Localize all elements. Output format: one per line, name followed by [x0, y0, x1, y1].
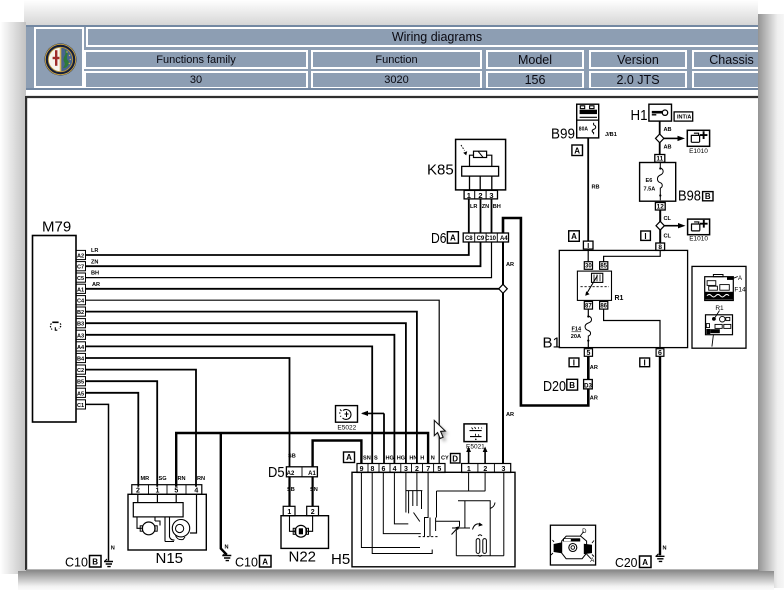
svg-text:C7: C7: [77, 265, 84, 271]
component N15 pin strip 2 1 5 4: [132, 485, 202, 495]
arrowhead to E1010 top: [678, 136, 686, 141]
wire K85 pin3 down to D6: [491, 199, 493, 233]
K85 contact bar: [462, 166, 499, 176]
svg-text:SN: SN: [310, 487, 318, 493]
wire M79-A2 LR to K85 pin1 via D6-C8: [86, 242, 469, 255]
svg-text:E5022: E5022: [337, 424, 356, 431]
I tag box below B1 left: [569, 358, 579, 367]
diagram panel bottom edge: [26, 569, 759, 571]
wire inside B1 from 8 to relay 85: [604, 250, 661, 261]
wire E5021 arrow from H5 pin2: [484, 451, 486, 464]
relay R1 pin box 30: [584, 262, 592, 270]
component B98 fuse box: [640, 163, 676, 202]
wire H1 AB to junction and pin 11: [659, 121, 661, 154]
svg-text:N: N: [225, 545, 229, 551]
svg-text:C8: C8: [465, 236, 473, 242]
ground module E1010 top box: [687, 130, 709, 146]
relay R1 coil box: [592, 273, 603, 282]
svg-text:A: A: [574, 146, 580, 155]
M79 wiper icon: [50, 322, 61, 330]
wire inside B1 from I to relay 30: [587, 249, 589, 262]
svg-text:AR: AR: [590, 365, 598, 371]
svg-text:N22: N22: [289, 549, 317, 566]
relay R1 switch arm: [587, 276, 598, 294]
svg-text:2: 2: [415, 466, 419, 473]
svg-text:N: N: [431, 456, 435, 462]
svg-text:D3: D3: [584, 383, 592, 389]
svg-text:LR: LR: [470, 204, 477, 210]
mouse cursor: [434, 420, 448, 441]
connector pin box 6: [656, 349, 664, 357]
diagram panel top border: [26, 96, 758, 98]
component H1 ignition switch box: [649, 104, 672, 121]
svg-text:E1010: E1010: [689, 236, 708, 243]
N15 wiper motor M: [142, 522, 155, 535]
connector D6 A tag box: [447, 232, 458, 244]
svg-text:AR: AR: [506, 412, 514, 418]
svg-text:RN: RN: [178, 476, 186, 482]
component N22 pin boxes 1 2: [283, 506, 295, 515]
svg-text:A: A: [642, 558, 648, 567]
svg-text:E1010: E1010: [689, 148, 708, 155]
svg-text:30: 30: [585, 264, 592, 270]
N15 washer pump: [172, 520, 189, 537]
wire K85 pin2 down to D6: [480, 199, 482, 233]
D20 B tag box: [567, 379, 578, 390]
svg-text:SB: SB: [287, 487, 295, 493]
svg-text:11: 11: [656, 156, 663, 163]
svg-text:12: 12: [657, 204, 665, 211]
svg-text:AB: AB: [664, 145, 672, 151]
svg-text:1: 1: [467, 466, 471, 473]
wire B1 pin6 N to ground C20: [659, 356, 661, 555]
svg-text:F14: F14: [734, 287, 746, 294]
connector I box on B1 top left: [583, 241, 593, 249]
svg-text:3: 3: [502, 466, 506, 473]
B98 fuse symbol: [657, 163, 663, 201]
svg-text:CL: CL: [664, 233, 672, 239]
svg-text:D: D: [582, 529, 587, 535]
wire M79-A1 AR to node diamond: [86, 288, 500, 290]
svg-text:AR: AR: [506, 262, 514, 268]
M79 pin boxes column: [76, 250, 86, 409]
wire M79-B5 to N15 pin1: [86, 381, 158, 487]
svg-text:1: 1: [467, 191, 471, 200]
svg-text:A: A: [262, 558, 268, 567]
svg-text:H1: H1: [631, 107, 648, 124]
svg-text:85: 85: [600, 264, 607, 270]
ground C20 A symbol: [656, 554, 665, 562]
H5 right pin strip 1 2 3: [462, 464, 511, 473]
svg-text:1: 1: [156, 488, 160, 495]
svg-text:2: 2: [483, 466, 487, 473]
svg-text:A: A: [346, 453, 352, 462]
relay R1 pin box 87: [584, 302, 592, 310]
ground C10 A symbol: [222, 553, 231, 561]
svg-text:A4: A4: [500, 236, 508, 242]
svg-text:C5: C5: [77, 276, 84, 282]
svg-text:N: N: [111, 546, 115, 552]
K85 relay coil: [474, 151, 487, 157]
svg-text:A: A: [450, 234, 456, 243]
svg-text:D5: D5: [268, 464, 285, 481]
B98 I tag box: [641, 231, 651, 240]
svg-text:SG: SG: [159, 476, 167, 482]
C10 B tag box: [90, 556, 102, 568]
svg-text:INT/A: INT/A: [677, 115, 691, 121]
svg-text:ZN: ZN: [482, 204, 489, 210]
B99 fuse symbol: [592, 123, 596, 134]
wire M79-C5 BH to D6-C10: [86, 242, 492, 278]
svg-text:5: 5: [174, 488, 178, 495]
svg-text:2: 2: [136, 488, 140, 495]
connector D5 bar A2 A1: [286, 467, 317, 477]
wire M79-B2 to H5 pin2: [86, 312, 417, 464]
svg-text:7: 7: [426, 466, 430, 473]
K85 legs: [470, 176, 492, 190]
component H5 box: [352, 472, 515, 567]
E5021 washer icon: [470, 431, 482, 437]
wire K85 pin1 down to D6: [468, 199, 470, 233]
N15 pump leads: [165, 517, 175, 542]
svg-text:8: 8: [658, 244, 662, 251]
svg-text:HG: HG: [397, 456, 405, 462]
svg-text:3: 3: [404, 466, 408, 473]
svg-text:R1: R1: [715, 305, 724, 312]
svg-text:B4: B4: [77, 357, 85, 363]
arrowhead to E1010 bottom: [678, 223, 686, 228]
svg-text:4: 4: [393, 466, 397, 473]
wire M79-C1 N to ground C10B: [86, 404, 109, 560]
N22 motor leads: [290, 516, 313, 532]
svg-text:80A: 80A: [579, 127, 589, 133]
svg-text:A1: A1: [77, 287, 84, 293]
svg-text:2: 2: [478, 191, 482, 200]
component B99 battery-fuse box: [577, 104, 599, 138]
svg-text:J/B1: J/B1: [605, 132, 617, 138]
wire M79-B4 SB to D5-A2: [86, 358, 290, 467]
svg-text:E5021: E5021: [466, 443, 485, 450]
wire M79-B3 to H5 pin3: [86, 323, 406, 463]
svg-text:I: I: [644, 232, 646, 241]
E5022 arrowhead: [361, 411, 368, 416]
svg-text:B99: B99: [551, 126, 575, 143]
wire M79-A3 to H5 pin4: [86, 335, 395, 464]
wire B98 pin12 CL to junction and pin 8: [659, 210, 661, 243]
wire relay 86 to pin6: [604, 309, 660, 349]
svg-text:AR: AR: [92, 282, 100, 288]
K85 pin strip 1 2 3: [464, 190, 497, 199]
svg-text:S: S: [374, 456, 378, 462]
connector pin box 12: [655, 203, 665, 211]
H1 key icon: [662, 110, 667, 115]
wire N rail from N15 pin5 to H5 pin7: [176, 433, 428, 487]
svg-text:E6: E6: [646, 178, 653, 184]
svg-text:20A: 20A: [571, 334, 581, 340]
wire M79-C2 to N15 pin4: [86, 370, 197, 487]
svg-text:C20: C20: [615, 556, 638, 570]
svg-text:BH: BH: [493, 204, 501, 210]
relay R1 pin box 86: [600, 302, 608, 310]
svg-text:ZN: ZN: [91, 259, 98, 265]
wire B1 pin5 to D20 connector: [587, 356, 590, 379]
H1 INT/A tag box: [674, 112, 693, 121]
component M79 box: [33, 236, 77, 423]
I tag box below B1 right: [640, 358, 650, 367]
H5 A tag box: [344, 452, 355, 463]
K85 intermittence icon: [461, 145, 465, 151]
svg-text:C9: C9: [477, 236, 485, 242]
svg-text:N: N: [663, 546, 667, 552]
svg-text:HG: HG: [386, 456, 394, 462]
svg-text:SB: SB: [288, 454, 296, 460]
svg-text:D: D: [452, 455, 458, 464]
C20 A tag box: [640, 556, 652, 568]
wire M79-C7 ZN to D6-C9: [86, 242, 481, 266]
module E5021 box: [464, 424, 487, 442]
component K85 box: [456, 139, 506, 190]
svg-text:I: I: [573, 359, 575, 368]
svg-text:8: 8: [370, 466, 374, 473]
svg-text:7.5A: 7.5A: [644, 187, 656, 193]
fuse F14 20A symbol: [585, 316, 591, 341]
component N15 box: [128, 494, 206, 550]
wire D5-A1 to N22 pin2: [312, 477, 314, 507]
svg-text:D20: D20: [543, 378, 566, 395]
wire N branch to ground C10A: [221, 433, 227, 555]
H5 D tag box: [451, 454, 461, 464]
B99 lower A tag box: [569, 231, 580, 242]
svg-text:A1: A1: [308, 471, 316, 477]
relay R1 pin box 85: [600, 262, 608, 270]
svg-text:B: B: [705, 192, 711, 201]
svg-text:6: 6: [381, 466, 385, 473]
wire junction arrow to E1010 top: [664, 137, 679, 139]
wire SN from D5-A1 to H5 pin9: [313, 441, 362, 467]
relay R1 body: [577, 271, 611, 300]
C10 A tag box: [260, 556, 272, 568]
svg-text:AB: AB: [664, 127, 672, 133]
svg-text:F14: F14: [572, 327, 583, 333]
component B1 box: [559, 250, 687, 347]
svg-text:A2: A2: [287, 471, 295, 477]
svg-text:HN: HN: [409, 456, 417, 462]
svg-text:5: 5: [437, 466, 441, 473]
svg-text:N15: N15: [156, 550, 184, 567]
svg-text:LR: LR: [91, 248, 98, 254]
module E5022 box: [336, 406, 358, 423]
svg-text:AR: AR: [590, 395, 598, 401]
svg-text:5: 5: [586, 350, 590, 357]
svg-text:K85: K85: [427, 162, 454, 179]
svg-text:87: 87: [585, 304, 592, 310]
N15 field bar: [133, 503, 183, 517]
B99 A tag box: [572, 145, 583, 156]
svg-text:B: B: [92, 558, 98, 567]
node diamond below H1: [656, 134, 664, 143]
svg-text:I: I: [587, 243, 589, 250]
svg-text:2: 2: [311, 509, 315, 516]
K85 body shoulders: [470, 155, 492, 166]
svg-text:CY: CY: [441, 456, 449, 462]
wire E5021 arrow from H5 pin1: [468, 451, 470, 464]
svg-text:C10: C10: [485, 236, 497, 242]
wire thick feed from D20 to D6-A4: [503, 218, 588, 406]
svg-text:MR: MR: [141, 476, 150, 482]
wire E5022 stub to H5 pin6: [383, 413, 385, 463]
wire M79-C4 to H5 pin5: [86, 300, 440, 463]
B98 B tag box: [703, 192, 713, 201]
connector pin box 11: [655, 155, 665, 163]
svg-text:9: 9: [360, 466, 364, 473]
svg-text:A: A: [738, 276, 742, 282]
svg-text:B: B: [569, 381, 575, 390]
E5022 wiper icon: [343, 409, 352, 419]
N22 pump motor: [295, 525, 307, 537]
E5021 arrowheads: [466, 447, 471, 453]
svg-text:C10: C10: [235, 556, 258, 570]
svg-text:A: A: [590, 558, 594, 564]
svg-text:86: 86: [600, 304, 607, 310]
N15 pin stubs: [138, 494, 176, 502]
H5 interior switch wiring: [361, 473, 503, 557]
B99 battery plates: [580, 110, 597, 114]
svg-text:B3: B3: [77, 322, 84, 328]
ground C10 B symbol: [104, 559, 113, 567]
component N22 box: [281, 516, 329, 549]
wire relay 87 to fuse to pin5: [587, 309, 589, 349]
svg-text:D6: D6: [431, 230, 447, 247]
svg-text:C4: C4: [77, 299, 85, 305]
svg-text:3: 3: [489, 191, 493, 200]
svg-text:SN: SN: [363, 456, 371, 462]
svg-text:B5: B5: [77, 380, 84, 386]
svg-text:I: I: [643, 359, 645, 368]
svg-text:CL: CL: [664, 216, 672, 222]
diagram panel left border: [25, 96, 27, 570]
svg-text:A5: A5: [77, 391, 84, 397]
svg-text:RN: RN: [197, 476, 205, 482]
svg-text:M79: M79: [42, 219, 71, 236]
B99 battery terminals: [580, 106, 584, 109]
relay R1 dashed link: [581, 286, 610, 288]
wire D5-A2 to N22 pin1: [288, 477, 290, 507]
wire B99 RB down to connector I: [587, 138, 589, 241]
svg-text:C1: C1: [77, 403, 84, 409]
wire junction arrow to E1010 bottom: [665, 225, 680, 227]
window edge shadows: [24, 0, 758, 25]
wire D6-A4 to node and H5 pin3: [502, 242, 504, 464]
connector D6 bar C8 C9 C10 A4: [463, 233, 508, 242]
svg-text:A3: A3: [77, 333, 84, 339]
header table: [26, 25, 758, 90]
node diamond on CL wire: [656, 221, 664, 230]
svg-text:H: H: [420, 456, 424, 462]
svg-text:BH: BH: [91, 271, 99, 277]
N15 motor leads: [137, 517, 160, 528]
svg-text:C2: C2: [77, 368, 84, 374]
svg-text:B1: B1: [543, 335, 561, 352]
inset engine location box: [550, 525, 595, 565]
inset F14/R1 location box: [692, 266, 746, 348]
svg-text:1: 1: [287, 509, 291, 516]
svg-text:C10: C10: [65, 556, 88, 570]
svg-text:H5: H5: [331, 551, 350, 568]
svg-text:4: 4: [194, 488, 198, 495]
wire M79-A5 to N15 pin2: [86, 393, 139, 487]
svg-text:6: 6: [658, 350, 662, 357]
svg-text:A2: A2: [77, 253, 84, 259]
H5 left pin strip 9 8 6 4 3 2 7 5: [357, 464, 445, 473]
Alfa Romeo logo: [44, 43, 77, 76]
wire arrow line to E5022: [363, 412, 385, 414]
svg-text:R1: R1: [615, 295, 624, 302]
wire M79-A4 to H5 pin8: [86, 346, 373, 463]
svg-text:A: A: [571, 232, 577, 241]
ground module E1010 bottom box: [688, 219, 710, 235]
node diamond at D6-A4/AR junction: [499, 284, 508, 293]
connector pin box 8: [656, 243, 665, 250]
svg-text:RB: RB: [592, 185, 600, 191]
svg-text:B98: B98: [678, 188, 701, 205]
connector pin box 5: [584, 349, 592, 357]
connector D20 pin box D3: [584, 380, 593, 389]
svg-text:B2: B2: [77, 310, 84, 316]
svg-text:A4: A4: [77, 345, 85, 351]
